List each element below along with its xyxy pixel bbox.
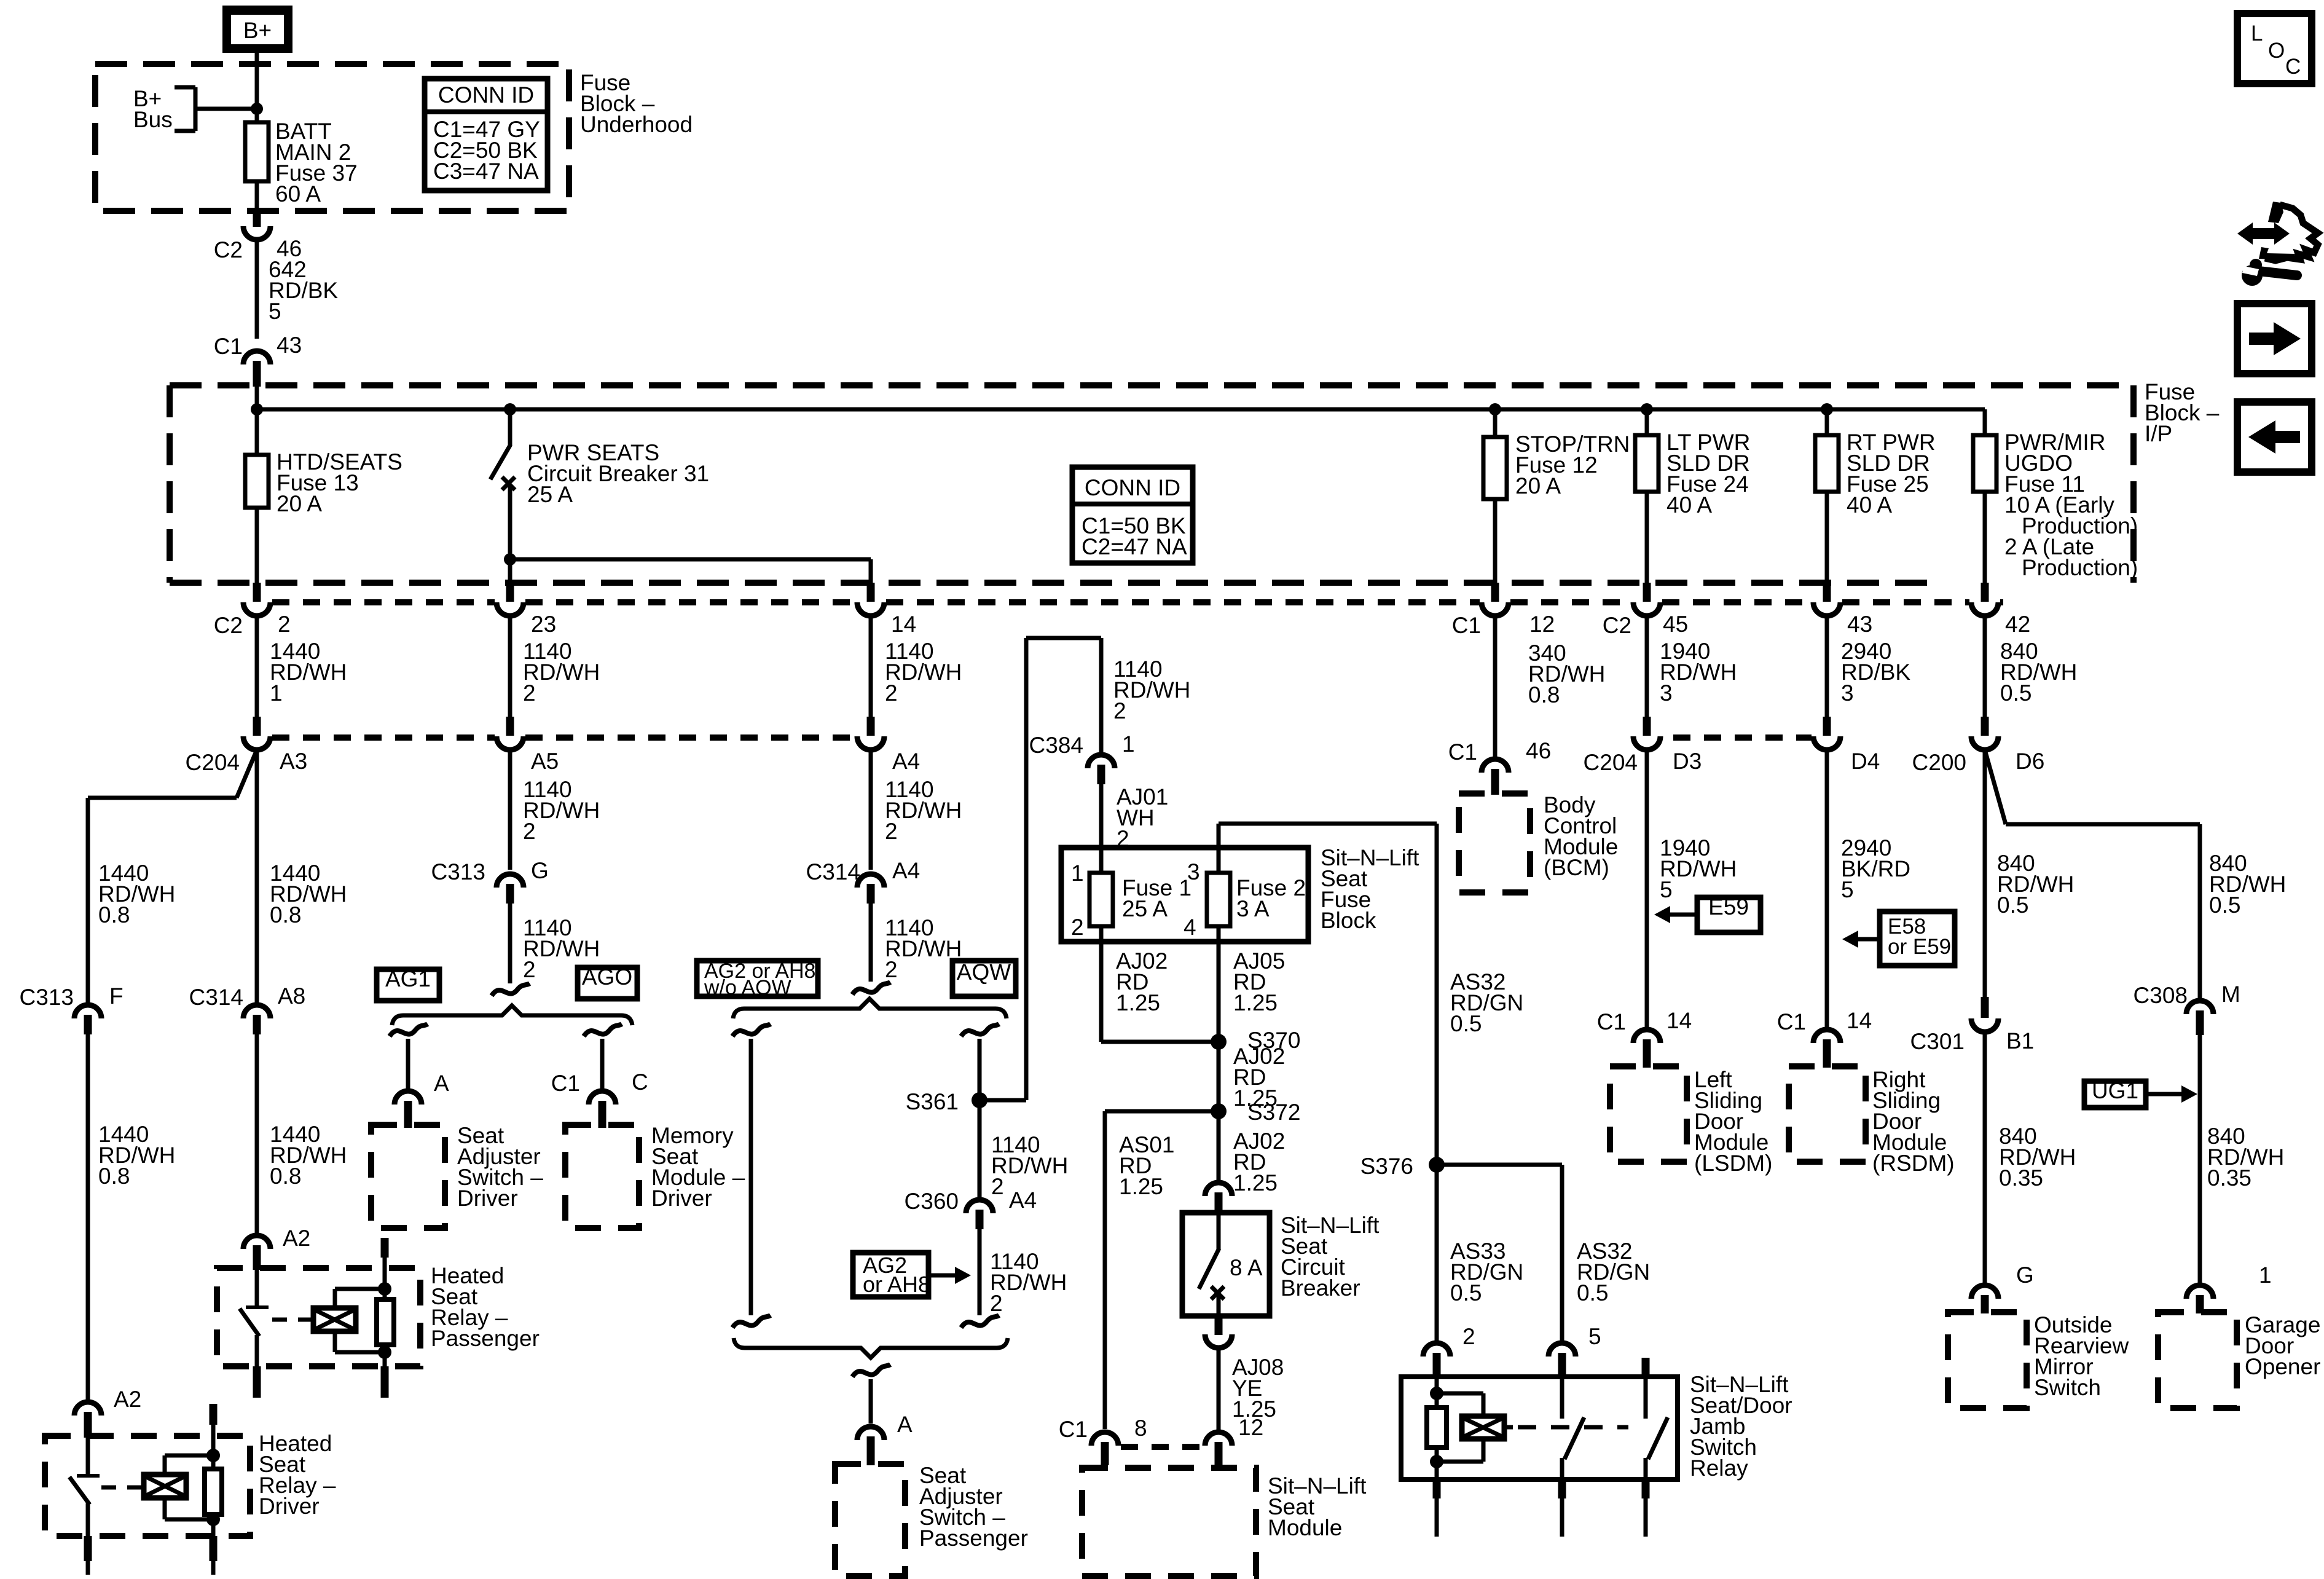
- fuse HTD/SEATS Fuse 13 20A: [245, 409, 402, 583]
- svg-text:1.25: 1.25: [1233, 990, 1278, 1015]
- svg-text:0.5: 0.5: [1577, 1280, 1608, 1305]
- svg-text:1: 1: [270, 680, 283, 706]
- svg-text:or E59: or E59: [1888, 935, 1951, 959]
- junction S372: [1211, 1100, 1300, 1125]
- svg-text:43: 43: [1847, 612, 1872, 637]
- svg-text:0.8: 0.8: [270, 902, 301, 927]
- connector C204 pin A3: [186, 717, 308, 775]
- svg-text:14: 14: [1847, 1008, 1872, 1033]
- svg-text:A5: A5: [531, 749, 559, 774]
- svg-text:C314: C314: [189, 985, 243, 1010]
- loop wire S361 to C384: [979, 638, 1101, 1100]
- svg-text:0.5: 0.5: [2000, 680, 2032, 706]
- svg-text:Production): Production): [2022, 555, 2138, 580]
- svg-text:43: 43: [277, 333, 302, 358]
- connector below circuit breaker: [1205, 1316, 1232, 1348]
- svg-text:A3: A3: [280, 749, 307, 774]
- connector pin 2 (jamb relay): [1423, 1324, 1475, 1378]
- svg-text:C314: C314: [806, 859, 860, 884]
- fuse LT PWR SLD DR Fuse 24 40A: [1635, 409, 1750, 583]
- relay resistor (driver): [205, 1404, 222, 1536]
- wire 1940 RD/WH 3: [1647, 615, 1737, 718]
- svg-text:E59: E59: [1708, 894, 1749, 919]
- svg-text:0.8: 0.8: [270, 1164, 301, 1189]
- relay coil (passenger): [272, 1289, 385, 1352]
- right sliding door module (RSDM) dashed box: [1789, 1066, 1955, 1176]
- node B+ Bus tap: [133, 86, 263, 132]
- svg-text:1.25: 1.25: [1233, 1170, 1278, 1195]
- jamb relay bottom pins: [1437, 1479, 1646, 1537]
- junction bus at HTD/SEATS: [251, 403, 263, 415]
- wire break above AG1/AGO brace: [492, 983, 530, 996]
- connector row C204/C200 dotted line: [272, 734, 1812, 741]
- option tag AG2 or AH8 with arrow: [853, 1253, 971, 1297]
- sit-n-lift seat/door jamb switch relay box: [1401, 1377, 1678, 1479]
- svg-text:C301: C301: [1910, 1029, 1965, 1054]
- svg-text:2: 2: [991, 1174, 1004, 1199]
- svg-text:A2: A2: [114, 1387, 141, 1412]
- sit-n-lift seat circuit breaker 8A: [1182, 1213, 1380, 1316]
- svg-text:D3: D3: [1673, 749, 1702, 774]
- relay coil (driver): [101, 1455, 213, 1519]
- CONN ID table underhood: [425, 79, 548, 191]
- fuse 1 25A: [1071, 860, 1191, 940]
- connector C1 pin C (memory seat module): [551, 1069, 648, 1128]
- service icon (arrow, animal head, wrench): [2237, 202, 2318, 286]
- connector pin 42 (PWR/MIR out): [1971, 583, 2030, 637]
- svg-text:40 A: 40 A: [1666, 492, 1712, 518]
- wire 1140 RD/WH 2 (col2 lower): [510, 750, 600, 870]
- svg-text:Module: Module: [1268, 1515, 1342, 1540]
- svg-text:46: 46: [1526, 738, 1551, 763]
- sit-n-lift seat module dashed box: [1082, 1468, 1367, 1576]
- connector C384 pin 1: [1029, 731, 1135, 784]
- connector C2 pin 46: [214, 211, 302, 262]
- wire split to driver branch (diagonal): [88, 750, 257, 1006]
- wire 340 RD/WH 0.8: [1495, 615, 1605, 760]
- svg-text:B+: B+: [243, 18, 272, 43]
- connector pin 14: [857, 583, 916, 637]
- svg-text:C1: C1: [214, 334, 243, 359]
- connector C204 pin D3: [1584, 717, 1702, 775]
- svg-text:AQW: AQW: [957, 959, 1011, 985]
- svg-text:G: G: [2016, 1262, 2034, 1288]
- svg-text:C313: C313: [431, 859, 485, 884]
- svg-text:A8: A8: [278, 983, 305, 1009]
- connector A4 (row2 col3): [857, 717, 920, 774]
- svg-text:14: 14: [891, 612, 916, 637]
- svg-text:C308: C308: [2134, 983, 2188, 1008]
- wire 1140 RD/WH 2 (col2 bottom): [510, 904, 600, 983]
- option tag AG2 or AH8 w/o AQW: [697, 959, 818, 999]
- connector C313 pin F: [20, 983, 124, 1034]
- connector pin 5 (jamb relay): [1549, 1324, 1601, 1378]
- svg-text:CONN ID: CONN ID: [438, 82, 534, 108]
- connector row C2/C1 dotted line: [272, 599, 2003, 605]
- heated seat relay - driver dashed box: [45, 1436, 250, 1536]
- wire AJ05 RD 1.25 (fuse2 out): [1219, 926, 1285, 1042]
- svg-text:C1: C1: [551, 1071, 580, 1096]
- svg-text:S372: S372: [1247, 1100, 1300, 1125]
- svg-text:AG1: AG1: [385, 966, 431, 991]
- wire AS33 RD/GN 0.5 to pin 2: [1437, 1165, 1523, 1344]
- svg-text:Driver: Driver: [259, 1494, 320, 1519]
- wire fuse37 to C2 connector: [255, 181, 259, 212]
- svg-text:0.8: 0.8: [1528, 682, 1560, 707]
- svg-text:25 A: 25 A: [527, 482, 573, 507]
- svg-text:S376: S376: [1360, 1154, 1413, 1179]
- wire 1940 RD/WH 5: [1647, 750, 1737, 1028]
- svg-text:2: 2: [1113, 698, 1126, 723]
- junction resistor top: [1430, 1387, 1443, 1400]
- junction bus at PWR SEATS: [504, 403, 516, 415]
- option brace to seat adjuster passenger: [734, 1338, 1008, 1358]
- relay output stubs (driver): [88, 1536, 213, 1575]
- svg-text:20 A: 20 A: [1515, 473, 1561, 498]
- svg-text:C2: C2: [1603, 613, 1631, 638]
- svg-text:(LSDM): (LSDM): [1694, 1151, 1772, 1176]
- junction coil top (passenger): [378, 1282, 391, 1296]
- svg-text:4: 4: [1184, 915, 1196, 940]
- svg-text:C: C: [632, 1069, 648, 1095]
- svg-text:3: 3: [1187, 859, 1200, 884]
- svg-text:O: O: [2268, 39, 2285, 63]
- svg-text:(BCM): (BCM): [1544, 855, 1609, 880]
- svg-text:14: 14: [1666, 1008, 1692, 1033]
- connector A5: [497, 717, 559, 774]
- svg-text:Relay: Relay: [1690, 1455, 1748, 1481]
- svg-text:C204: C204: [1584, 750, 1638, 775]
- svg-text:2: 2: [885, 819, 898, 844]
- CONN ID table I/P: [1072, 467, 1193, 563]
- wire 1440 RD/WH 1: [257, 615, 347, 718]
- junction resistor bottom: [1430, 1455, 1443, 1468]
- wire 642 RD/BK 5: [257, 239, 338, 339]
- svg-text:1: 1: [1071, 860, 1084, 886]
- page arrow previous (left): [2237, 402, 2312, 472]
- svg-text:20 A: 20 A: [277, 491, 322, 516]
- connector pin 1 (garage door opener): [2186, 1262, 2272, 1313]
- svg-text:Bus: Bus: [133, 107, 173, 132]
- svg-text:C384: C384: [1029, 733, 1083, 758]
- connector C301 pin B1: [1910, 997, 2035, 1054]
- wire to seat adjuster switch driver: [390, 1024, 428, 1092]
- svg-text:25 A: 25 A: [1122, 896, 1168, 921]
- wire B+ to fuse block underhood: [255, 53, 259, 122]
- wire AS32 from fuse2 to S376: [1219, 824, 1523, 1165]
- connector C314 pin A8: [189, 983, 306, 1034]
- svg-text:C204: C204: [186, 750, 240, 775]
- svg-text:5: 5: [1660, 877, 1673, 902]
- svg-text:2: 2: [278, 612, 291, 637]
- wire to memory seat module: [584, 1024, 622, 1092]
- svg-text:1: 1: [2259, 1262, 2272, 1288]
- svg-text:0.35: 0.35: [1999, 1165, 2043, 1191]
- wire 1140 RD/WH 2 (col3 upper): [871, 615, 962, 718]
- svg-text:0.8: 0.8: [98, 1164, 130, 1189]
- svg-text:F: F: [109, 983, 124, 1009]
- connector C314 pin A4: [806, 858, 921, 904]
- svg-text:0.35: 0.35: [2207, 1165, 2251, 1191]
- wire AS32 RD/GN 0.5 to pin 5: [1437, 1165, 1650, 1344]
- svg-text:1.25: 1.25: [1116, 990, 1160, 1015]
- svg-text:C: C: [2285, 55, 2301, 79]
- wire AJ02 RD 1.25 (fuse1 out): [1101, 926, 1219, 1042]
- relay output stubs (passenger): [257, 1366, 385, 1398]
- wire D6 split to garage door branch: [1985, 750, 2286, 1001]
- jamb relay resistor: [1427, 1377, 1447, 1479]
- svg-text:8 A: 8 A: [1230, 1255, 1263, 1280]
- svg-text:60 A: 60 A: [275, 181, 321, 207]
- LOC legend box: [2237, 14, 2312, 84]
- svg-text:C1: C1: [1777, 1009, 1806, 1034]
- svg-text:23: 23: [531, 612, 556, 637]
- page arrow next (right): [2237, 304, 2312, 374]
- connector pin A2 (passenger relay): [243, 1226, 310, 1270]
- svg-text:0.5: 0.5: [1450, 1280, 1482, 1305]
- junction bus at STOP/TRN: [1489, 403, 1501, 415]
- svg-text:1: 1: [1122, 731, 1135, 757]
- svg-text:2: 2: [1071, 915, 1084, 940]
- svg-text:Driver: Driver: [457, 1186, 518, 1211]
- jamb relay coil: [1437, 1393, 1513, 1462]
- svg-text:12: 12: [1529, 612, 1555, 637]
- fuse block - I/P dashed box: [170, 385, 2134, 583]
- circuit breaker 31 PWR SEATS 25A: [490, 409, 709, 583]
- outside rearview mirror switch dashed box: [1948, 1312, 2129, 1408]
- svg-text:CONN ID: CONN ID: [1085, 475, 1180, 500]
- wire 840 RD/WH 0.35 (garage): [2200, 1035, 2284, 1286]
- svg-text:8: 8: [1134, 1416, 1147, 1441]
- relay switch (driver): [69, 1436, 100, 1536]
- svg-text:40 A: 40 A: [1847, 492, 1892, 518]
- connector C1 pin 14 (RSDM): [1777, 1008, 1872, 1068]
- fuse STOP/TRN Fuse 12 20A: [1483, 409, 1630, 583]
- svg-text:Driver: Driver: [651, 1186, 712, 1211]
- svg-text:2: 2: [523, 680, 536, 706]
- connector pin 23 (PWR SEATS out): [497, 583, 556, 637]
- option tag AQW: [952, 959, 1016, 996]
- connector pin G: [1971, 1262, 2034, 1313]
- svg-text:0.8: 0.8: [98, 902, 130, 927]
- connector C1 pin 8 (seat module): [1059, 1416, 1147, 1465]
- option tag AGO: [578, 964, 637, 999]
- wire AJ02 RD 1.25 (S372 down): [1219, 1111, 1285, 1195]
- svg-text:2: 2: [885, 957, 898, 982]
- svg-text:A2: A2: [283, 1226, 310, 1251]
- svg-text:C1: C1: [1059, 1417, 1088, 1442]
- sit-n-lift seat fuse block box: [1061, 845, 1419, 942]
- wire 840 RD/WH 0.35 (col7 lower): [1985, 1031, 2076, 1286]
- junction coil bottom (passenger): [378, 1345, 391, 1359]
- junction S370: [1211, 1028, 1300, 1053]
- wire 1440 RD/WH 0.8 (driver lower): [88, 1034, 175, 1403]
- junction S361: [906, 1089, 987, 1114]
- wire 1440 RD/WH 0.8 (passenger upper): [257, 750, 347, 1006]
- wire 1140 RD/WH 2 (col2 upper): [510, 615, 600, 718]
- svg-text:42: 42: [2005, 612, 2030, 637]
- junction bus at RT PWR: [1821, 403, 1833, 415]
- reference tag UG1 with arrow: [2084, 1078, 2197, 1108]
- connector into circuit breaker: [1205, 1183, 1232, 1214]
- svg-text:A: A: [434, 1071, 449, 1096]
- option brace AG1/AGO: [392, 1006, 632, 1025]
- svg-text:G: G: [531, 858, 549, 883]
- heated seat relay - passenger dashed box: [217, 1268, 420, 1366]
- svg-text:Breaker: Breaker: [1281, 1275, 1360, 1301]
- wire 1440 RD/WH 0.8 (passenger lower): [257, 1034, 347, 1236]
- jamb relay switch 1: [1562, 1377, 1584, 1479]
- svg-text:2: 2: [1462, 1324, 1475, 1349]
- svg-text:C2: C2: [214, 613, 243, 638]
- junction bus at LT PWR: [1641, 403, 1653, 415]
- svg-text:3: 3: [1660, 680, 1673, 706]
- wire break above AQW brace: [852, 982, 890, 994]
- power symbol B+: [222, 6, 292, 53]
- svg-text:I/P: I/P: [2145, 421, 2172, 446]
- svg-text:D4: D4: [1851, 749, 1880, 774]
- svg-text:A4: A4: [892, 858, 920, 883]
- connector pin A2 (driver relay): [74, 1387, 141, 1438]
- jamb relay actuation dashes: [1518, 1425, 1628, 1430]
- wire 2940 RD/BK 3: [1827, 615, 1910, 718]
- connector pin A (seat adjuster passenger): [857, 1412, 913, 1465]
- wire to seat adjuster passenger: [852, 1364, 890, 1423]
- svg-text:M: M: [2221, 982, 2240, 1007]
- connector C1 pin 12 (STOP/TRN out): [1452, 583, 1555, 638]
- connector C1 pin 43: [214, 333, 302, 387]
- wire AS01 RD 1.25: [1105, 1111, 1219, 1429]
- svg-text:C313: C313: [20, 985, 74, 1010]
- svg-text:C360: C360: [905, 1189, 959, 1214]
- svg-text:A4: A4: [1009, 1187, 1037, 1213]
- connector pin 43 (RT PWR out): [1813, 583, 1872, 637]
- body control module (BCM) dashed box: [1459, 792, 1618, 892]
- svg-text:C2=47 NA: C2=47 NA: [1082, 534, 1187, 559]
- option tag AG1: [377, 966, 439, 1001]
- relay resistor (passenger): [377, 1238, 394, 1366]
- seat module connector dotted row: [1121, 1444, 1203, 1450]
- connector C2 pin 45 (LT PWR out): [1603, 583, 1688, 638]
- left sliding door module (LSDM) dashed box: [1610, 1066, 1772, 1176]
- svg-text:Opener: Opener: [2245, 1354, 2320, 1379]
- wire AJ08 YE 1.25 12: [1219, 1347, 1284, 1440]
- wire w/o AQW option (left): [732, 1024, 771, 1328]
- svg-text:5: 5: [269, 299, 281, 324]
- svg-text:or AH8: or AH8: [863, 1272, 930, 1297]
- wire AJ02 RD 1.25 (S370-S372): [1219, 1042, 1285, 1111]
- svg-text:A: A: [897, 1412, 913, 1437]
- fuse block - underhood dashed box: [95, 64, 569, 211]
- svg-text:Block: Block: [1321, 908, 1376, 933]
- garage door opener dashed box: [2158, 1312, 2320, 1408]
- svg-text:Passenger: Passenger: [431, 1326, 540, 1351]
- connector C1 pin 14 (LSDM): [1597, 1008, 1692, 1068]
- svg-text:UG1: UG1: [2092, 1078, 2138, 1103]
- svg-text:0.5: 0.5: [1997, 892, 2028, 918]
- svg-text:2: 2: [990, 1291, 1003, 1316]
- connector C313 pin G: [431, 858, 549, 904]
- svg-text:AGO: AGO: [582, 964, 632, 990]
- seat adjuster switch - passenger dashed box: [835, 1463, 1028, 1576]
- svg-text:S361: S361: [906, 1089, 959, 1114]
- svg-text:Underhood: Underhood: [580, 112, 693, 137]
- wire 840 RD/WH 0.5 (col7 upper): [1985, 615, 2077, 718]
- svg-text:C200: C200: [1912, 750, 1966, 775]
- seat adjuster switch - driver dashed box: [371, 1123, 543, 1228]
- fuse PWR/MIR UGDO Fuse 11: [1973, 409, 2138, 583]
- svg-text:3: 3: [1841, 680, 1854, 706]
- connector pin D4: [1813, 717, 1880, 774]
- bus wire inside I/P fuse block: [257, 387, 1985, 409]
- wire AJ01 WH 2: [1101, 784, 1168, 873]
- wire 1140 RD/WH 2 (col3 bottom): [871, 904, 962, 982]
- svg-text:12: 12: [1238, 1415, 1263, 1440]
- svg-text:5: 5: [1841, 877, 1854, 902]
- connector pin A (seat adjuster driver): [395, 1071, 449, 1128]
- connector C1 pin 46 (BCM): [1448, 738, 1551, 795]
- svg-text:C1: C1: [1597, 1009, 1626, 1034]
- svg-text:D6: D6: [2016, 749, 2044, 774]
- connector C200 pin D6: [1912, 717, 2045, 775]
- connector pin 12 (seat module): [1205, 1432, 1232, 1465]
- svg-text:3 A: 3 A: [1236, 896, 1270, 921]
- svg-text:45: 45: [1663, 612, 1688, 637]
- svg-text:0.5: 0.5: [1450, 1011, 1482, 1036]
- svg-text:Switch: Switch: [2034, 1375, 2101, 1400]
- memory seat module - driver dashed box: [565, 1123, 745, 1228]
- svg-text:(RSDM): (RSDM): [1872, 1151, 1955, 1176]
- relay switch (passenger): [240, 1268, 269, 1366]
- wire breaker output tap to pin 14: [504, 553, 871, 583]
- svg-text:L: L: [2251, 22, 2263, 45]
- svg-text:2: 2: [885, 680, 898, 706]
- fuse 2 3A: [1184, 859, 1306, 940]
- connector C2 pin 2 (HTD/SEATS out): [214, 583, 291, 638]
- connector C308 pin M: [2134, 982, 2240, 1035]
- reference tag E59 with arrow: [1654, 894, 1761, 932]
- wire 2940 BK/RD 5: [1827, 750, 1910, 1028]
- svg-text:C3=47 NA: C3=47 NA: [433, 159, 539, 184]
- svg-text:w/o AQW: w/o AQW: [704, 976, 791, 999]
- junction coil top (driver): [206, 1449, 220, 1462]
- svg-text:5: 5: [1588, 1324, 1601, 1349]
- svg-text:B1: B1: [2006, 1028, 2034, 1053]
- svg-text:C1: C1: [1448, 739, 1477, 765]
- reference tag E58 or E59 with arrow: [1842, 912, 1955, 966]
- junction coil bottom (driver): [206, 1513, 220, 1526]
- svg-text:2: 2: [523, 957, 536, 982]
- wire 1140 RD/WH 2 (below C360): [961, 1229, 1067, 1328]
- connector C360 pin A4: [905, 1187, 1037, 1229]
- fuse BATT MAIN 2 Fuse 37 60A: [245, 119, 358, 207]
- svg-text:A4: A4: [892, 749, 920, 774]
- svg-text:0.5: 0.5: [2209, 892, 2240, 918]
- jamb relay switch 2: [1646, 1358, 1668, 1479]
- svg-text:2: 2: [523, 819, 536, 844]
- fuse RT PWR SLD DR Fuse 25 40A: [1815, 409, 1936, 583]
- svg-text:C1: C1: [1452, 613, 1481, 638]
- svg-text:C2: C2: [214, 237, 243, 262]
- option brace AQW / w-o AQW: [733, 999, 1007, 1018]
- wire 840 RD/WH 0.5 (col7 mid): [1985, 750, 2074, 998]
- wire 1140 RD/WH 2 (col3 mid): [871, 750, 962, 870]
- svg-text:Passenger: Passenger: [919, 1526, 1028, 1551]
- svg-text:1.25: 1.25: [1119, 1174, 1163, 1199]
- junction S376: [1360, 1154, 1445, 1179]
- wire AQW option to S361: [961, 1024, 999, 1200]
